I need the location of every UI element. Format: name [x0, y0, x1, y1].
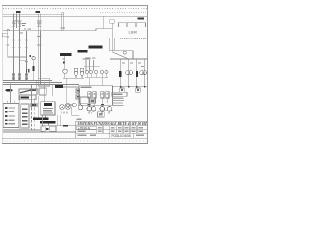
junction square metering	[63, 62, 65, 64]
coil box left	[3, 33, 8, 36]
sheet frame bottom inner border	[2, 137, 148, 139]
svg-text:FOGLIO 6/06: FOGLIO 6/06	[112, 134, 131, 138]
LV bus riser crossing	[36, 80, 52, 101]
title block column lines	[96, 126, 137, 138]
CT dark dashes on feeder A3	[26, 69, 27, 73]
vertical feeder A2	[19, 31, 21, 81]
vertical feeder A3	[26, 31, 28, 81]
small cell marks row2	[98, 127, 143, 128]
wire metering lower run	[63, 77, 84, 79]
disconnector Q1 poles on bay A	[12, 13, 21, 30]
control unit bold label	[44, 103, 52, 106]
terminal block X2 rows	[22, 109, 27, 125]
disconnector Q3 tap center	[60, 13, 65, 31]
title block outline	[76, 121, 148, 138]
junction box upper	[38, 79, 50, 86]
busbar label -W1	[16, 11, 21, 13]
aux relay boxes below-left	[80, 97, 89, 103]
cable label W11 bold	[78, 50, 88, 52]
CT double circle T2	[74, 68, 78, 72]
svg-text:LBR: LBR	[129, 29, 138, 34]
right bay feeder drops	[121, 59, 145, 87]
feeder labels ticks	[122, 63, 144, 68]
RIF tiny label above title block	[76, 119, 81, 120]
dark dot bottom row	[46, 128, 48, 130]
VT circle T1	[63, 69, 67, 73]
junction dots on collector	[120, 86, 146, 88]
wire metering drop	[63, 56, 65, 69]
node circle on jumper	[123, 51, 126, 54]
label plate with stripes	[19, 89, 38, 94]
cable label W12 bold	[89, 46, 103, 49]
terminal block X1 rows	[5, 101, 15, 125]
switchgear box outline	[79, 86, 113, 106]
relay box K1	[31, 103, 37, 107]
sheet frame zone tick row top	[3, 8, 147, 10]
vertical dashed runs	[31, 85, 34, 131]
aux CT row circles	[86, 71, 109, 74]
disconnector Q2 poles on bay B	[37, 13, 42, 30]
aux CT lower wire	[85, 77, 108, 79]
right bay horizontal wire	[110, 58, 148, 60]
small box bottom row2	[50, 126, 56, 131]
ground drop wire	[72, 107, 79, 115]
slanted jumper wire	[113, 52, 129, 59]
CT primary bar right1	[119, 71, 121, 77]
cable tag bold left	[55, 85, 63, 88]
motor circle pair left	[60, 105, 65, 110]
mini table rows	[113, 98, 125, 106]
fuse F2	[18, 74, 21, 79]
sheet frame right border	[147, 6, 149, 144]
pole stems	[89, 98, 107, 106]
bottom-left bus lines	[3, 129, 40, 131]
wire cluster risers	[39, 96, 61, 126]
tiny text row above right bus	[100, 12, 146, 14]
tiny note under labels	[63, 58, 91, 59]
device circle left of switchgear	[78, 105, 82, 109]
cable label W10 bold	[60, 53, 72, 56]
junction box above title	[98, 112, 105, 117]
pole internal marks	[89, 93, 109, 94]
wire to mini table	[104, 110, 113, 112]
title block row lines	[76, 126, 148, 133]
terminal block X1 outline	[3, 104, 19, 128]
wire link to switchgear	[62, 86, 79, 88]
LV distribution bus upper	[3, 79, 52, 81]
tick on left drop	[6, 36, 8, 38]
wire left of LBR going down	[112, 23, 114, 52]
tiny labels above aux CT	[85, 58, 96, 59]
wire drop left edge	[7, 31, 9, 58]
small box bottom row	[41, 127, 45, 132]
junction blobs above device circles	[88, 104, 104, 106]
tiny labels on measure line	[19, 28, 31, 33]
ticks feeder B	[37, 37, 42, 46]
sheet frame bottom outer border	[2, 143, 148, 145]
sheet frame left border	[1, 6, 3, 144]
bold designation bar row2	[40, 121, 56, 123]
busbar label -W2	[36, 11, 41, 13]
terminal box right1	[120, 88, 125, 92]
dark label inside plate	[21, 97, 30, 99]
CT double circle T3	[80, 68, 84, 72]
small cell marks row3	[78, 131, 144, 132]
device circles under switchgear	[87, 107, 92, 112]
label near bay A	[22, 23, 26, 26]
vertical feeder B pair	[37, 31, 39, 85]
wire horizontal mid right	[110, 50, 133, 52]
CT circles right2	[140, 71, 144, 75]
vertical feeder A1	[13, 31, 15, 81]
LBR box top wire	[119, 23, 146, 27]
right collector wire	[112, 86, 148, 88]
control unit box	[41, 102, 55, 115]
busbar lens marker	[5, 89, 12, 92]
terminal box right2	[136, 88, 141, 92]
control unit text rows	[43, 108, 53, 114]
mini table header right	[112, 92, 127, 96]
riser wire into X1	[10, 84, 12, 104]
junction node on feeder instrument	[29, 55, 31, 57]
switchgear box title tiny	[81, 87, 92, 88]
svg-text:+7019-IL: +7019-IL	[78, 126, 91, 130]
wire drop from bus right-center	[103, 16, 105, 28]
sheet frame top border	[2, 5, 148, 7]
fuse F3	[25, 74, 28, 79]
wire step right of center	[96, 29, 112, 31]
instrument lamp circle	[32, 57, 35, 60]
junction box lower	[39, 88, 46, 95]
sheet frame zone tick row bottom	[3, 140, 147, 142]
bus tap component right	[110, 20, 115, 23]
wire between blocks	[19, 96, 21, 130]
CT circles right1	[126, 71, 130, 75]
bus B 45kV horizontal busbar lower	[3, 15, 148, 17]
breaker pole pair 1	[88, 92, 91, 98]
grounding circle pair	[66, 103, 70, 107]
wire bottom center horizontal	[41, 125, 76, 127]
drawing number +7019-IL	[77, 126, 96, 129]
label plate lower	[19, 95, 36, 99]
wire link left drop to feeder	[8, 56, 27, 58]
CT primary bar right2	[136, 71, 138, 77]
LV distribution bus lower	[3, 84, 79, 86]
LBR remote label bold	[138, 18, 145, 20]
wire pair mid right	[109, 38, 111, 51]
bold designation bar row1	[33, 118, 49, 120]
terminal block X2 outline	[21, 104, 29, 128]
aux CT wiring top	[84, 66, 100, 68]
measuring wire horizontal dotted run	[3, 30, 96, 32]
switchgear aux squares left	[76, 89, 80, 93]
LBR box drops	[126, 23, 128, 27]
LBR caption tiny row	[120, 38, 146, 40]
wire hook at left	[7, 29, 10, 30]
hatch under device circles	[88, 112, 110, 114]
motor hatch left	[62, 112, 68, 114]
tag bar near title block	[63, 125, 68, 127]
fuse F1	[12, 74, 15, 79]
LV distribution bus middle	[3, 81, 62, 83]
wire instrument drop	[33, 60, 35, 66]
wire ticks feeder group	[12, 40, 27, 48]
instrument CT primary bar	[33, 66, 35, 71]
bus A 45kV horizontal busbar upper	[3, 13, 64, 15]
breaker pole pair 2	[101, 92, 104, 98]
bottom-left row4 marks	[78, 135, 145, 136]
wire from metering to motor	[65, 78, 67, 104]
